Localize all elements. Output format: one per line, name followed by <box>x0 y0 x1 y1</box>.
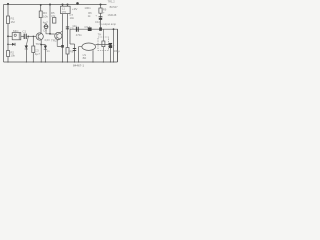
emitter bypass leg x74.5 <box>74 44 76 62</box>
capacitor C2 bottom <box>44 45 46 62</box>
svg-text:BC547: BC547 <box>110 5 118 9</box>
svg-text:TH: TH <box>98 33 102 37</box>
wire x114 <box>113 29 115 62</box>
svg-text:osc: osc <box>62 10 67 14</box>
wire x50 from rail <box>49 5 51 34</box>
resistor R4 vertical <box>32 36 34 62</box>
node dot rail x8 <box>7 3 9 5</box>
wire C1 to TR1 <box>27 35 36 37</box>
node dot rail x62 <box>62 4 64 6</box>
node base-left <box>7 35 9 37</box>
capacitor C5 <box>66 27 69 29</box>
svg-text:10k: 10k <box>10 54 15 58</box>
node dot rail x67 <box>67 4 69 6</box>
diode D2 stub <box>7 44 9 46</box>
svg-text:to output amp: to output amp <box>100 22 117 26</box>
electrolytic C11 <box>109 45 111 62</box>
resistor R5 <box>53 18 56 24</box>
speaker bottom lead <box>92 50 94 62</box>
svg-text:8Ω: 8Ω <box>83 56 87 60</box>
speaker left lead <box>79 47 82 62</box>
svg-text:4µ7: 4µ7 <box>35 52 40 56</box>
svg-text:10n: 10n <box>70 16 75 20</box>
polarized cap C10 on x100 <box>99 16 103 18</box>
feedback wire x67.5 <box>67 14 69 62</box>
speaker wire right <box>95 44 110 46</box>
node dot rail x50 <box>49 4 51 6</box>
svg-text:1M: 1M <box>11 20 16 24</box>
svg-text:1n: 1n <box>46 49 50 53</box>
resistor R9 on x100 <box>100 5 102 30</box>
node blob output <box>99 27 102 30</box>
svg-text:0,6V: 0,6V <box>45 39 50 42</box>
dashed box LDR <box>98 37 109 51</box>
svg-text:TR1,2: TR1,2 <box>108 0 116 4</box>
node dot x62.5 y46 <box>61 45 64 48</box>
top supply rail <box>4 4 107 6</box>
supply tap node <box>76 2 79 5</box>
svg-text:84467-1: 84467-1 <box>73 64 84 68</box>
base wire TR2 <box>50 33 55 35</box>
svg-text:47k: 47k <box>51 14 56 18</box>
svg-text:+9V: +9V <box>72 7 77 11</box>
svg-text:MIC: MIC <box>13 29 19 33</box>
bottom ground rail <box>4 61 118 63</box>
polarized capacitor C9 <box>88 27 92 31</box>
capacitor C6 <box>73 48 76 50</box>
svg-text:10n: 10n <box>72 24 77 28</box>
coupling capacitor C8 <box>76 27 78 32</box>
emitter leg TR1 <box>40 40 42 62</box>
resistor R8 <box>66 48 69 54</box>
wire left column <box>7 5 9 63</box>
svg-text:C1: C1 <box>22 30 26 34</box>
collector resistor R3 <box>40 18 42 34</box>
resistor R1 <box>7 16 10 24</box>
microphone MIC <box>12 33 21 40</box>
svg-text:C4: C4 <box>43 29 47 33</box>
right frame wire <box>117 29 119 62</box>
node dot rail x100 <box>100 4 102 6</box>
transistor TR1 <box>36 33 43 40</box>
emitter leg TR2 <box>57 39 60 40</box>
emitter junction wire <box>41 44 45 46</box>
left frame wire <box>3 5 5 63</box>
collector diag to x62.5 <box>60 31 63 33</box>
wire mic to C1 <box>21 35 24 37</box>
coil can L1 <box>61 6 71 13</box>
diode D1 blob <box>25 46 28 49</box>
svg-text:TR2: TR2 <box>51 39 57 43</box>
output wire horizontal <box>70 29 118 62</box>
svg-text:100µ: 100µ <box>114 49 120 53</box>
bias leg node <box>28 36 29 37</box>
bias resistor leg <box>25 45 27 62</box>
node dot <box>49 33 51 35</box>
ground rail junction dots <box>7 61 114 62</box>
svg-text:4p7: 4p7 <box>43 20 48 24</box>
svg-text:TR1: TR1 <box>36 42 42 46</box>
resistor R2 <box>7 51 10 57</box>
svg-text:470n: 470n <box>76 33 82 37</box>
collector wire x62.5 <box>62 14 64 62</box>
svg-text:10k: 10k <box>43 14 48 18</box>
svg-text:1N4148: 1N4148 <box>108 14 117 17</box>
svg-text:C9: C9 <box>84 25 88 29</box>
wire to microphone <box>8 35 12 37</box>
transistor TR2 <box>55 32 62 39</box>
loudspeaker LS <box>82 43 96 50</box>
svg-text:100n: 100n <box>84 6 91 10</box>
wire vertical x70 <box>69 29 71 44</box>
capacitor C1 <box>24 34 26 39</box>
